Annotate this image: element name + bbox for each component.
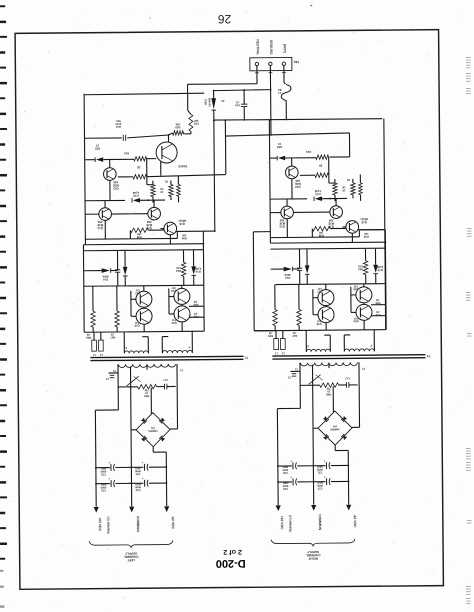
lower driver rail (wire) xyxy=(270,248,385,249)
svg-text:F: F xyxy=(370,344,372,348)
svg-text:R39100: R39100 xyxy=(363,232,368,239)
resistor R39R (bias third) xyxy=(359,183,363,195)
bridge left corner stub (wire) xyxy=(131,429,136,431)
bias resistor stubs (wires) xyxy=(334,179,336,183)
stray scan speck upper left xyxy=(150,18,151,19)
svg-text:Q17747: Q17747 xyxy=(317,287,323,294)
svg-text:Q18747: Q18747 xyxy=(353,284,359,291)
svg-text:F: F xyxy=(188,345,190,349)
svg-text:COMMON: COMMON xyxy=(318,514,322,530)
svg-text:+: + xyxy=(108,477,110,481)
faint lower binder ticks xyxy=(0,570,4,608)
svg-text:20: 20 xyxy=(137,165,141,169)
resistor R37L 1K (bias lower) xyxy=(169,184,174,196)
output stage upper rail (wire) xyxy=(275,283,385,286)
common rail from secondary (wire) xyxy=(312,365,313,505)
svg-text:L2: L2 xyxy=(99,353,103,357)
output transistor Q17R xyxy=(318,290,334,306)
svg-text:+62 VDC: +62 VDC xyxy=(98,517,102,531)
svg-text:R48107W: R48107W xyxy=(144,388,150,398)
output transistor leads (wires) xyxy=(325,284,327,289)
svg-text:+: + xyxy=(324,475,326,479)
svg-text:RIGHTCHANNELSUPPLY: RIGHTCHANNELSUPPLY xyxy=(306,550,321,561)
svg-text:L1: L1 xyxy=(274,352,278,356)
svg-text:R47.33: R47.33 xyxy=(110,333,115,340)
svg-text:D44C8: D44C8 xyxy=(178,164,187,168)
brace for left channel supply xyxy=(89,540,173,547)
transistor Q12L (pre-driver) xyxy=(103,168,116,181)
output transistor Q18R xyxy=(356,287,372,303)
driver emitter rail (wire) xyxy=(270,236,359,239)
vertical feed to output stage right rail (wire) xyxy=(384,230,387,330)
output stage bottom rail (wire) xyxy=(254,330,386,331)
capacitor C16L (protection row) xyxy=(115,269,120,271)
bridge right corner stub (wire) xyxy=(352,426,359,428)
svg-text:+: + xyxy=(142,460,144,464)
transformer T1L secondary winding xyxy=(118,364,175,368)
diode D13R (bias chain) xyxy=(270,198,307,200)
transformer T1R primary winding A xyxy=(306,349,330,352)
common rail from secondary (wire) xyxy=(130,366,131,506)
secondary end leads (wires) xyxy=(117,364,119,410)
svg-text:D154148: D154148 xyxy=(377,265,384,272)
svg-text:-62 VDC: -62 VDC xyxy=(353,514,357,528)
filter capacitor C22L 9000MFD xyxy=(96,483,110,485)
output transistor Q19R xyxy=(318,307,334,323)
output transistor Q18L xyxy=(174,288,190,304)
svg-text:L2: L2 xyxy=(281,352,285,356)
small capacitor on secondary left leg xyxy=(292,373,296,375)
svg-text:R44470: R44470 xyxy=(176,266,182,273)
resistor R44L (protection row) xyxy=(181,262,186,276)
svg-text:Q18747: Q18747 xyxy=(171,286,177,293)
long vertical from AC rail (wire) xyxy=(358,229,384,231)
svg-text:1N4004(4): 1N4004(4) xyxy=(148,426,158,433)
lower driver rail (wire) xyxy=(83,250,203,251)
resistor R37R 1K (bias lower) xyxy=(351,183,356,195)
svg-text:S: S xyxy=(307,344,309,348)
transistor Q16R (bias servo) xyxy=(346,221,359,234)
terminal strip TB1 (AC input) xyxy=(250,57,292,70)
capacitor C16R (protection row) xyxy=(297,267,302,269)
svg-text:C17: C17 xyxy=(345,377,350,381)
sloped driver return wire xyxy=(147,175,226,177)
lower AC rail (wire) xyxy=(214,119,382,120)
circuit breaker CB1 (thermal element) xyxy=(189,114,193,131)
svg-text:R47.33: R47.33 xyxy=(292,331,297,338)
svg-text:L1: L1 xyxy=(92,353,96,357)
left channel circuitry xyxy=(82,92,250,562)
positive DC rail (wire) xyxy=(276,409,279,505)
filter capacitor C21R 9000MFD xyxy=(313,465,325,467)
transformer T1R core (double line) xyxy=(272,355,425,356)
output transistor Q20R xyxy=(356,304,372,320)
line capacitor C19 .01 xyxy=(241,103,247,105)
svg-text:C229000MFD: C229000MFD xyxy=(100,483,106,493)
svg-text:2 of 2: 2 of 2 xyxy=(223,548,242,557)
wire from stack bottom to bias resistors xyxy=(146,177,148,185)
positive DC jog (wire) xyxy=(277,407,300,409)
collector rail (wire) xyxy=(83,244,203,245)
svg-text:Q13MJE350: Q13MJE350 xyxy=(97,220,103,230)
svg-text:GROUND: GROUND xyxy=(269,40,273,55)
crimp marks under TB1 pins xyxy=(255,71,259,74)
transistor Q16L (bias servo) xyxy=(164,222,177,235)
svg-text:C209000MFD: C209000MFD xyxy=(100,467,106,477)
wire from stack bottom to bias resistors xyxy=(328,175,330,183)
regulator feed corner (wire) xyxy=(224,121,226,174)
svg-text:R44470: R44470 xyxy=(358,264,364,271)
svg-text:Q19747: Q19747 xyxy=(134,321,140,328)
svg-text:R33: R33 xyxy=(306,150,311,154)
upper AC rail right segment (wire) xyxy=(214,89,271,92)
svg-text:+: + xyxy=(108,461,110,465)
collector rail (wire) xyxy=(270,242,385,243)
driver emitter rail (wire) xyxy=(85,237,177,240)
ground wire from TB1 down centre xyxy=(269,71,272,135)
svg-text:C239000MFD: C239000MFD xyxy=(317,481,323,491)
emitter resistor R45L .33 5W xyxy=(91,311,96,327)
diode D13L (bias chain) xyxy=(85,199,125,201)
svg-text:Q12MJE340: Q12MJE340 xyxy=(295,179,301,189)
svg-text:C219000MFD: C219000MFD xyxy=(134,466,140,476)
resistor R48R 10 7W (snubber) xyxy=(320,383,339,388)
resistor R48L 10 7W (snubber) xyxy=(138,384,157,389)
output transistor Q20L xyxy=(174,306,190,322)
fuse F1 xyxy=(281,84,291,100)
filter capacitor C23R 9000MFD xyxy=(314,481,326,483)
output transistor Q17L xyxy=(136,291,152,307)
svg-text:C209000MFD: C209000MFD xyxy=(282,465,288,475)
svg-text:T2: T2 xyxy=(426,354,430,358)
capacitor C17L (snubber) xyxy=(163,384,165,390)
choke L1L (boxed coil) xyxy=(92,340,97,351)
emitter resistor R45R .33 5W xyxy=(273,310,278,326)
svg-text:COMMON: COMMON xyxy=(136,516,140,532)
svg-text:D144004: D144004 xyxy=(284,273,291,280)
resistor R44R (protection row) xyxy=(363,261,368,275)
svg-text:F18A: F18A xyxy=(277,88,281,95)
svg-text:Q17747: Q17747 xyxy=(135,288,141,295)
svg-text:C2: C2 xyxy=(287,376,291,379)
svg-text:LEFTCHANNELSUPPLY: LEFTCHANNELSUPPLY xyxy=(124,551,139,562)
bridge rectifier D17R (4x 1N4004 diamond) xyxy=(318,411,352,445)
arrow COMMON output xyxy=(311,505,316,511)
output transistor Q19L xyxy=(136,308,152,324)
svg-text:D134148: D134148 xyxy=(314,189,321,196)
arrow -62VDC output xyxy=(346,505,351,511)
left channel left supply rail (wire) xyxy=(84,94,85,245)
svg-text:26: 26 xyxy=(218,12,232,26)
svg-text:-62 VDC: -62 VDC xyxy=(171,516,175,530)
svg-text:Q1640411: Q1640411 xyxy=(178,219,186,226)
fuse to AC rail (wire) xyxy=(285,100,287,119)
svg-text:R46.33: R46.33 xyxy=(193,300,198,307)
svg-text:+62 VDC: +62 VDC xyxy=(280,516,284,530)
fusible link F2R (diagonal slash) xyxy=(309,375,321,385)
diode D15R (protection row) xyxy=(305,265,310,273)
faint bleed-through marks on right page edge xyxy=(466,57,472,604)
svg-text:+: + xyxy=(324,459,326,463)
svg-text:D-200: D-200 xyxy=(216,557,246,569)
svg-text:D16: D16 xyxy=(204,99,208,105)
filter capacitor C20R 9000MFD xyxy=(278,465,292,467)
transformer T1L core (double line) xyxy=(90,356,243,357)
arrow -62VDC output xyxy=(164,506,169,512)
resistor R34R (stack bottom) xyxy=(315,173,329,178)
svg-text:Q1640411: Q1640411 xyxy=(360,217,368,224)
breaker lower lead (wire) xyxy=(190,131,192,133)
resistor R33L (stack top) xyxy=(134,157,147,162)
secondary centre tap (wire) xyxy=(146,366,148,369)
fusible link F2L (diagonal slash) xyxy=(127,376,139,386)
svg-text:C1: C1 xyxy=(361,367,365,371)
svg-text:D144004: D144004 xyxy=(102,275,109,282)
diode D12 (base clamp) xyxy=(85,159,95,161)
positive DC rail (wire) xyxy=(94,410,97,506)
choke L2R (boxed coil) xyxy=(281,339,286,350)
snubber row left wire xyxy=(300,384,319,386)
svg-text:R48107W: R48107W xyxy=(326,387,332,397)
resistor R38L (servo emitter) xyxy=(130,228,148,233)
diode D14L (protection row) xyxy=(102,268,110,273)
upper AC rail left segment (wire) xyxy=(84,93,204,95)
brace for right channel supply xyxy=(271,539,355,546)
svg-text:CB15W: CB15W xyxy=(193,119,199,126)
surge diode D16 (vertical) xyxy=(211,98,216,109)
output stage upper rail (wire) xyxy=(84,285,204,286)
svg-text:Q13MJE350: Q13MJE350 xyxy=(279,218,285,228)
filter capacitor C23L 9000MFD xyxy=(132,482,144,484)
svg-text:R2910K: R2910K xyxy=(175,123,180,130)
arrow +62VDC output xyxy=(94,507,99,513)
secondary centre tap (wire) xyxy=(328,365,330,368)
Q11 base feed (wire) xyxy=(147,158,156,160)
bridge rectifier D17L (4x 1N4004 diamond) xyxy=(136,413,170,447)
neutral wire from TB1 to breaker xyxy=(256,71,258,84)
regulator resistor R29 (horizontal) xyxy=(172,131,183,135)
transformer T1R secondary winding xyxy=(300,362,357,366)
bridge right corner stub (wire) xyxy=(170,428,177,430)
small capacitor on secondary left leg xyxy=(110,374,114,376)
filter capacitor C20L 9000MFD xyxy=(96,467,110,469)
svg-text:Q20747: Q20747 xyxy=(353,316,359,323)
svg-text:C17: C17 xyxy=(163,378,168,382)
svg-text:(HOT): (HOT) xyxy=(283,44,287,53)
svg-text:R48.33: R48.33 xyxy=(193,312,198,319)
long vertical from AC rail (wire) xyxy=(213,120,216,231)
svg-text:1N4003: 1N4003 xyxy=(208,98,212,108)
right channel right rail (wire) xyxy=(384,119,386,330)
stray scan speck top centre xyxy=(310,5,312,6)
svg-text:NEUTRAL: NEUTRAL xyxy=(256,39,260,55)
svg-text:S: S xyxy=(125,346,127,350)
binder tick marks (left page edge) xyxy=(0,5,7,560)
diode D16L (protection row) xyxy=(191,266,196,274)
svg-text:R46.33: R46.33 xyxy=(375,298,380,305)
emitter resistor R47R .33 5W xyxy=(297,309,302,325)
bias resistor stubs (wires) xyxy=(152,181,154,185)
arrow COMMON output xyxy=(129,507,134,513)
svg-text:C229000MFD: C229000MFD xyxy=(282,481,288,491)
svg-text:R3210: R3210 xyxy=(277,142,283,149)
output stage bottom rail (wire) xyxy=(84,331,204,332)
output transistor leads (wires) xyxy=(143,286,145,291)
choke L1R (boxed coil) xyxy=(274,339,279,350)
svg-text:R1: R1 xyxy=(346,178,350,181)
svg-text:R48.33: R48.33 xyxy=(375,310,380,317)
svg-text:R33: R33 xyxy=(124,151,129,155)
svg-text:D134148: D134148 xyxy=(132,191,139,198)
svg-text:R39100: R39100 xyxy=(181,233,186,240)
snubber row left wire xyxy=(118,386,137,388)
svg-text:Q12MJE340: Q12MJE340 xyxy=(113,180,119,190)
hot wire from TB1 to fuse xyxy=(283,71,285,83)
resistor R33R (stack top) xyxy=(316,155,329,160)
svg-text:R45.33: R45.33 xyxy=(268,331,273,338)
transistor Q12R (pre-driver) xyxy=(285,166,298,179)
svg-text:+: + xyxy=(290,475,292,479)
svg-text:+: + xyxy=(290,459,292,463)
bridge left corner stub (wire) xyxy=(313,427,318,429)
wire to bridge input xyxy=(332,386,334,412)
filter capacitor C22R 9000MFD xyxy=(278,481,292,483)
arrow +62VDC output xyxy=(276,505,281,511)
svg-text:C2: C2 xyxy=(105,377,109,380)
bridge bottom output wire xyxy=(334,445,336,450)
rail from regulator corner to right channel (wire) xyxy=(225,133,349,136)
resistor R36R 750 (bias upper) xyxy=(333,183,338,195)
base coupling wire with series capacitor C15 xyxy=(84,137,121,139)
right channel lower feed (wire) xyxy=(252,232,255,331)
wire joining resistor stack right ends xyxy=(328,157,330,175)
svg-text:20: 20 xyxy=(319,164,323,168)
outer supply rail down to transformer (wire) xyxy=(82,245,85,332)
svg-text:T1: T1 xyxy=(244,356,248,360)
svg-text:C219000MFD: C219000MFD xyxy=(316,465,322,475)
svg-text:R1: R1 xyxy=(164,180,168,183)
resistor R34L (stack bottom) xyxy=(133,175,147,180)
svg-text:101K: 101K xyxy=(342,185,346,192)
svg-text:D154148: D154148 xyxy=(195,267,202,274)
right channel left supply rail (wire) xyxy=(269,119,270,243)
svg-text:8A: 8A xyxy=(221,99,224,103)
svg-text:R45.33: R45.33 xyxy=(86,333,91,340)
capacitor C17R (snubber) xyxy=(345,382,347,388)
right channel circuitry xyxy=(252,118,432,561)
svg-text:C19.01: C19.01 xyxy=(235,100,240,107)
resistor R39L (bias third) xyxy=(177,184,181,196)
svg-text:Q19747: Q19747 xyxy=(316,319,322,326)
positive DC jog (wire) xyxy=(95,409,118,411)
wire to bridge input xyxy=(150,388,152,414)
transistor Q13L (driver) xyxy=(99,208,112,221)
svg-text:101K: 101K xyxy=(160,187,164,194)
secondary end leads (wires) xyxy=(299,363,301,409)
regulator transistor Q11 (TO-3) xyxy=(156,142,177,163)
transistor Q15L (driver) xyxy=(148,207,161,220)
svg-text:C1: C1 xyxy=(179,368,183,372)
transformer T1L primary winding A xyxy=(124,351,148,354)
svg-text:R31470050V: R31470050V xyxy=(115,119,122,129)
svg-text:TB1: TB1 xyxy=(293,60,299,64)
resistor R38R (servo emitter) xyxy=(312,226,330,231)
transformer T1L primary winding B xyxy=(162,350,192,353)
choke L2L (boxed coil) xyxy=(99,340,104,351)
bridge bottom output wire xyxy=(152,447,154,452)
resistor R36L 750 (bias upper) xyxy=(151,185,156,197)
svg-text:Q20747: Q20747 xyxy=(171,318,177,325)
svg-text:(TO DRIVER): (TO DRIVER) xyxy=(106,517,110,534)
Q11 collector stub (wire) xyxy=(167,135,169,142)
diode D14 (base clamp) xyxy=(270,157,277,159)
vertical feed to output stage right rail (wire) xyxy=(202,231,205,331)
filter capacitor C21L 9000MFD xyxy=(131,466,143,468)
emitter resistor R47L .33 5W xyxy=(115,311,120,327)
transistor Q15R (driver) xyxy=(330,206,343,219)
transistor Q13R (driver) xyxy=(281,206,294,219)
svg-text:C239000MFD: C239000MFD xyxy=(135,482,141,492)
wire joining resistor stack right ends xyxy=(146,159,148,177)
diode D16R (protection row) xyxy=(373,265,378,273)
svg-text:1N4004(4): 1N4004(4) xyxy=(330,425,340,432)
Q11 emitter drop (wire) xyxy=(160,162,162,176)
diode D14R (protection row) xyxy=(284,267,292,272)
svg-text:R3210: R3210 xyxy=(95,144,101,151)
transformer T1R primary winding B xyxy=(344,349,374,352)
diode D15L (protection row) xyxy=(123,267,128,275)
svg-text:(TO DRIVER): (TO DRIVER) xyxy=(288,515,292,532)
right channel collector drop (wire) xyxy=(348,133,350,157)
svg-text:+: + xyxy=(142,476,144,480)
